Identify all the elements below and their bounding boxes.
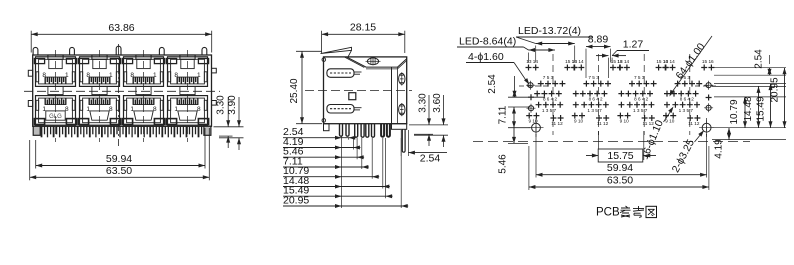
pcb port group 3 row3 holes [627, 102, 633, 108]
svg-text:7 5 3: 7 5 3 [634, 75, 645, 80]
svg-text:2.54: 2.54 [487, 74, 498, 94]
front view RJ45 port lower 2 [80, 96, 120, 126]
pcb hole 1.60 right upper [706, 83, 711, 88]
side view front shield leg [324, 124, 330, 131]
svg-text:14.48: 14.48 [743, 96, 754, 121]
dimension 59.94 front bottom [35, 140, 37, 169]
svg-text:7 5 3: 7 5 3 [543, 75, 554, 80]
pcb hole 1.60 right lower [706, 105, 711, 110]
pcb board edge dashed line [473, 141, 750, 143]
front view right side tab lower [212, 101, 217, 106]
svg-text:13 14: 13 14 [617, 59, 629, 64]
svg-text:9 10: 9 10 [528, 118, 538, 123]
svg-text:10.79: 10.79 [729, 99, 740, 124]
svg-text:13 14: 13 14 [572, 59, 584, 64]
pcb port group 1 row1 holes [538, 81, 544, 87]
svg-text:1 3 5 7: 1 3 5 7 [679, 108, 694, 113]
svg-text:9 10: 9 10 [620, 118, 630, 123]
front view top shield tabs [33, 47, 38, 55]
pcb mounting hole centerlines [535, 118, 537, 137]
pcb hole 1.60 left lower [528, 106, 533, 111]
svg-text:63.86: 63.86 [108, 22, 134, 34]
pcb port group 2 row3 holes [581, 102, 587, 108]
pcb shield hole right edge [706, 95, 712, 101]
pcb shield hole left edge [528, 94, 534, 100]
dimension 3.30 front right [214, 126, 244, 128]
svg-text:8 6 4 2: 8 6 4 2 [680, 97, 694, 102]
side view back column bottom [392, 124, 407, 130]
side view horizontal centerline [305, 90, 412, 92]
pcb port group 2 row2 holes [580, 91, 586, 97]
svg-text:59.94: 59.94 [607, 162, 633, 174]
pcb port group 2 row1 holes [583, 81, 589, 87]
svg-text:13 14: 13 14 [663, 59, 675, 64]
side view back wall line [391, 67, 393, 124]
svg-text:2.54: 2.54 [754, 49, 765, 69]
side view top rivet [367, 58, 378, 65]
svg-text:4-ϕ1.60: 4-ϕ1.60 [468, 51, 504, 63]
svg-text:28.15: 28.15 [350, 22, 376, 34]
dimension 63.50 front bottom [29, 140, 31, 180]
svg-text:9 10: 9 10 [574, 118, 584, 123]
side view contact slot lower [327, 105, 354, 114]
dimension 3.90 front right [219, 137, 244, 139]
pcb mounting hole right 3.25 [702, 123, 711, 132]
front view housing outline [33, 55, 212, 126]
side view body outline [324, 57, 407, 124]
svg-text:63.50: 63.50 [106, 165, 132, 177]
front view left side tab lower [28, 101, 32, 107]
pcb port group 4 LED holes [662, 65, 668, 71]
pcb port group 3 row1 holes [629, 81, 635, 87]
pcb port group 3 LED holes [617, 65, 623, 71]
svg-text:3.60: 3.60 [432, 93, 443, 113]
svg-text:7.11: 7.11 [498, 105, 509, 124]
svg-text:15.75: 15.75 [607, 150, 633, 162]
svg-text:1.27: 1.27 [623, 39, 644, 51]
svg-text:9 10: 9 10 [665, 118, 675, 123]
svg-text:63.50: 63.50 [607, 174, 633, 186]
dimension 25.40 side left [296, 50, 322, 52]
svg-text:1 3 5 7: 1 3 5 7 [587, 108, 602, 113]
front view bottom pin comb [41, 126, 43, 137]
pcb port group 2 bottom pair holes [572, 113, 578, 119]
svg-text:8: 8 [153, 106, 157, 113]
svg-text:8 6 4 2: 8 6 4 2 [634, 97, 648, 102]
svg-text:8 6 4 2: 8 6 4 2 [543, 97, 557, 102]
pcb hole 1.60 left upper [528, 83, 533, 88]
pcb port group 1 row3 holes [536, 102, 542, 108]
front view RJ45 port lower 4 [168, 96, 208, 126]
dimension 63.86 front top [30, 31, 32, 53]
svg-text:59.94: 59.94 [106, 153, 132, 165]
side view bottom pins [340, 124, 343, 137]
svg-text:5.46: 5.46 [498, 154, 509, 174]
pcb port group 4 bottom pair holes [663, 113, 669, 119]
svg-text:3.30: 3.30 [418, 93, 429, 113]
side view back rivet upper [399, 73, 405, 84]
svg-text:LED-8.64(4): LED-8.64(4) [459, 36, 516, 48]
dimension LED-8.64 arrows [529, 49, 555, 51]
side view contact slot upper [327, 69, 354, 78]
svg-text:15.49: 15.49 [756, 96, 767, 121]
pcb port group 2 LED holes [571, 65, 577, 71]
front view port centerline 2 [99, 50, 101, 142]
pcb port group 1 row2 holes [534, 91, 540, 97]
front view RJ45 port upper 2 [80, 57, 120, 87]
pcb port group 4 row1 holes [675, 81, 681, 87]
svg-text:20.95: 20.95 [283, 195, 309, 207]
front view port centerline 3 [143, 50, 145, 142]
dimension 63.50 pcb bottom [528, 146, 530, 190]
svg-text:1 3 5 7: 1 3 5 7 [542, 108, 557, 113]
pcb port group 3 row2 holes [625, 91, 631, 97]
front view RJ45 port lower 1 [36, 96, 76, 126]
svg-text:4.19: 4.19 [714, 139, 725, 159]
caption CJK characters [620, 206, 631, 217]
front view RJ45 port upper 4 [168, 57, 208, 87]
dimension 15.75 pcb boxed [597, 131, 599, 160]
front view RJ45 port lower 3 [124, 96, 164, 126]
svg-text:13 14: 13 14 [526, 59, 538, 64]
dimension 3.60 side right [414, 134, 448, 136]
front view port centerline 4 [187, 50, 189, 142]
front view vertical centerline global [118, 44, 120, 146]
side view latch lever [321, 47, 352, 53]
svg-text:8 6 4 2: 8 6 4 2 [589, 97, 603, 102]
pcb mounting hole left 3.25 [532, 123, 541, 132]
pcb port group 4 row3 holes [672, 102, 678, 108]
front view top center tab [116, 46, 121, 55]
front view left side tab upper [28, 70, 32, 76]
pcb shield holes [573, 91, 579, 97]
svg-text:8: 8 [109, 106, 113, 113]
svg-text:3.90: 3.90 [227, 95, 238, 115]
side view pin extension lines [341, 136, 343, 208]
side view back rivet lower [399, 104, 405, 115]
svg-text:7 5 3: 7 5 3 [588, 75, 599, 80]
side view top inner contour [347, 57, 407, 67]
front view RJ45 port upper 1 [36, 57, 76, 87]
svg-text:2.54: 2.54 [420, 153, 441, 165]
pcb port centerlines [552, 54, 554, 135]
side view center square post [349, 93, 356, 100]
pcb small hole centerlines [519, 85, 549, 87]
front view right side tab upper [212, 68, 217, 73]
svg-text:8: 8 [197, 106, 201, 113]
front view port centerline 1 [55, 50, 57, 142]
pcb port group 1 LED holes [526, 65, 532, 71]
side view corner pin circles [322, 58, 326, 62]
front view right shield leg [204, 126, 211, 135]
pcb right leader lines [714, 67, 786, 69]
side view shield solder leg [402, 129, 405, 152]
front view left shield leg [33, 126, 40, 135]
svg-text:1 3 5 7: 1 3 5 7 [633, 108, 648, 113]
svg-text:25.40: 25.40 [289, 78, 300, 103]
pcb port group 3 bottom pair holes [617, 113, 623, 119]
pcb port group 4 row2 holes [671, 91, 677, 97]
front view RJ45 port upper 3 [124, 57, 164, 87]
svg-text:20.95: 20.95 [770, 77, 781, 102]
svg-text:8.89: 8.89 [588, 34, 609, 46]
pcb port group 1 bottom pair holes [526, 113, 532, 119]
dimension 2.54 side right bottom [400, 130, 402, 156]
dimension 3.30 side right [409, 124, 448, 126]
front view horizontal centerline [24, 90, 220, 92]
svg-text:PCB: PCB [596, 207, 620, 219]
svg-text:3.30: 3.30 [216, 95, 227, 115]
dimension LED-13.72 arrows [536, 43, 575, 45]
svg-text:LED-13.72(4): LED-13.72(4) [518, 25, 581, 37]
dimension 28.15 side top [321, 31, 323, 53]
svg-text:15 16: 15 16 [702, 59, 714, 64]
dimension 59.94 pcb bottom [535, 134, 537, 178]
